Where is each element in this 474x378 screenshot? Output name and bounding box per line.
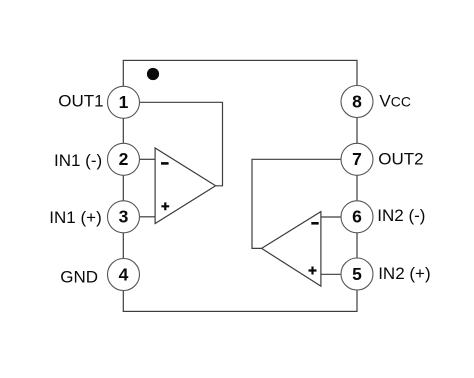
op-amp A triangle <box>155 148 216 224</box>
op-amp A plus label <box>161 202 169 210</box>
pin 4 circle <box>108 259 140 291</box>
op-amp B triangle <box>262 212 321 287</box>
svg-text:5: 5 <box>352 264 362 284</box>
svg-text:6: 6 <box>352 207 362 227</box>
pin 7 circle <box>341 143 373 175</box>
op-amp B plus label <box>309 267 317 275</box>
svg-text:4: 4 <box>119 264 129 284</box>
svg-text:IN2 (+): IN2 (+) <box>378 264 430 283</box>
op-amp B minus label <box>311 222 318 225</box>
svg-text:2: 2 <box>119 149 129 169</box>
wire pin3 to op-amp A non-inverting input <box>140 216 156 218</box>
svg-text:8: 8 <box>352 91 362 111</box>
wire pin5 to op-amp B non-inverting input <box>321 273 341 275</box>
svg-text:IN1 (+): IN1 (+) <box>49 208 101 227</box>
svg-text:OUT2: OUT2 <box>378 150 423 169</box>
pin 5 circle <box>341 258 373 290</box>
pin 8 circle <box>341 86 373 118</box>
pin 6 circle <box>341 201 373 233</box>
svg-text:VCC: VCC <box>379 91 411 110</box>
svg-text:OUT1: OUT1 <box>58 92 103 111</box>
pin 3 circle <box>108 201 140 233</box>
pin 2 circle <box>108 143 140 175</box>
wire pin1 feedback to op-amp A output <box>140 102 223 186</box>
wire op-amp B output to pin7 <box>252 159 341 248</box>
wire pin2 to op-amp A inverting input <box>140 158 156 160</box>
svg-text:3: 3 <box>119 207 129 227</box>
IC body outline U1 <box>123 60 357 311</box>
svg-text:GND: GND <box>60 267 98 286</box>
svg-text:7: 7 <box>352 149 362 169</box>
pin 1 circle <box>108 86 140 118</box>
wire pin6 to op-amp B inverting input <box>321 216 341 218</box>
svg-text:IN1 (-): IN1 (-) <box>54 151 102 170</box>
pin-1 indicator dot <box>147 68 159 80</box>
op-amp A minus label <box>161 162 169 165</box>
svg-text:1: 1 <box>119 92 129 112</box>
svg-text:IN2 (-): IN2 (-) <box>377 206 425 225</box>
